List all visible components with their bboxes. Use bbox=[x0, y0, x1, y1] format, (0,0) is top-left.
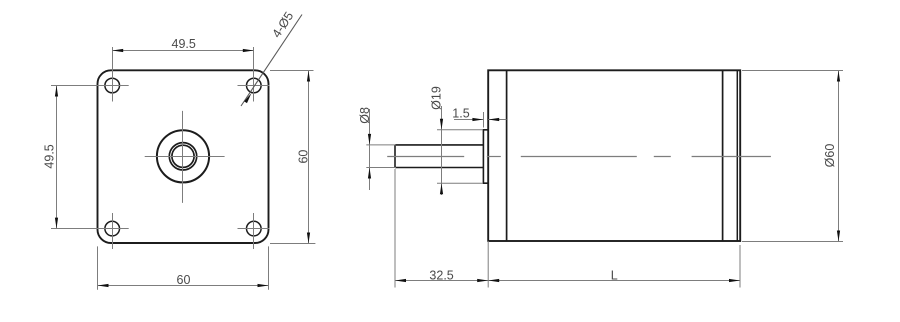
svg-text:32.5: 32.5 bbox=[429, 268, 453, 282]
svg-text:Ø60: Ø60 bbox=[823, 144, 837, 168]
centerline cross bottom-right hole bbox=[238, 213, 270, 249]
side view motor body bbox=[488, 70, 740, 241]
centerline cross top-left hole bbox=[51, 47, 129, 102]
centerline cross top-right hole bbox=[238, 47, 270, 102]
rear cap line bbox=[736, 70, 738, 241]
mounting hole bottom-left bbox=[105, 221, 120, 236]
svg-text:Ø8: Ø8 bbox=[358, 107, 372, 124]
pilot boss circle bbox=[157, 130, 209, 182]
dimension diam 60 bbox=[742, 71, 843, 242]
svg-text:Ø19: Ø19 bbox=[430, 86, 444, 110]
hub centerlines bbox=[145, 111, 225, 203]
mounting hole bottom-right bbox=[247, 221, 262, 236]
front view flange outline bbox=[98, 70, 269, 243]
svg-text:60: 60 bbox=[177, 273, 191, 287]
mounting hole top-left bbox=[105, 78, 120, 93]
leader 4-diam-5 bbox=[241, 15, 302, 107]
dimension 60 bottom bbox=[98, 246, 269, 289]
svg-text:L: L bbox=[611, 268, 618, 282]
rear endbell line bbox=[722, 70, 724, 241]
mounting hole top-right bbox=[247, 78, 262, 93]
dimension 1.5 bbox=[454, 112, 507, 128]
shaft side view bbox=[395, 145, 483, 168]
dimension 49.5 left bbox=[56, 86, 58, 229]
side view centerline bbox=[387, 156, 771, 158]
leader arrowhead bbox=[244, 93, 251, 103]
dimension 60 right bbox=[270, 71, 315, 244]
svg-text:49.5: 49.5 bbox=[172, 37, 196, 51]
dimension 32.5 bbox=[395, 169, 488, 288]
dimension diam 19 bbox=[437, 106, 483, 195]
shaft circle inner bbox=[172, 145, 194, 167]
svg-text:4-Ø5: 4-Ø5 bbox=[269, 9, 296, 40]
dimension 49.5 top bbox=[112, 50, 254, 52]
svg-text:60: 60 bbox=[297, 150, 311, 164]
dimension diam 8 bbox=[366, 109, 396, 190]
svg-text:1.5: 1.5 bbox=[452, 106, 469, 120]
front flange inner line bbox=[506, 70, 508, 241]
shaft circle outer bbox=[169, 143, 196, 170]
svg-text:49.5: 49.5 bbox=[43, 144, 57, 168]
dimension L bbox=[488, 245, 740, 288]
pilot boss side view bbox=[483, 130, 488, 183]
centerline cross bottom-left hole bbox=[51, 213, 129, 249]
